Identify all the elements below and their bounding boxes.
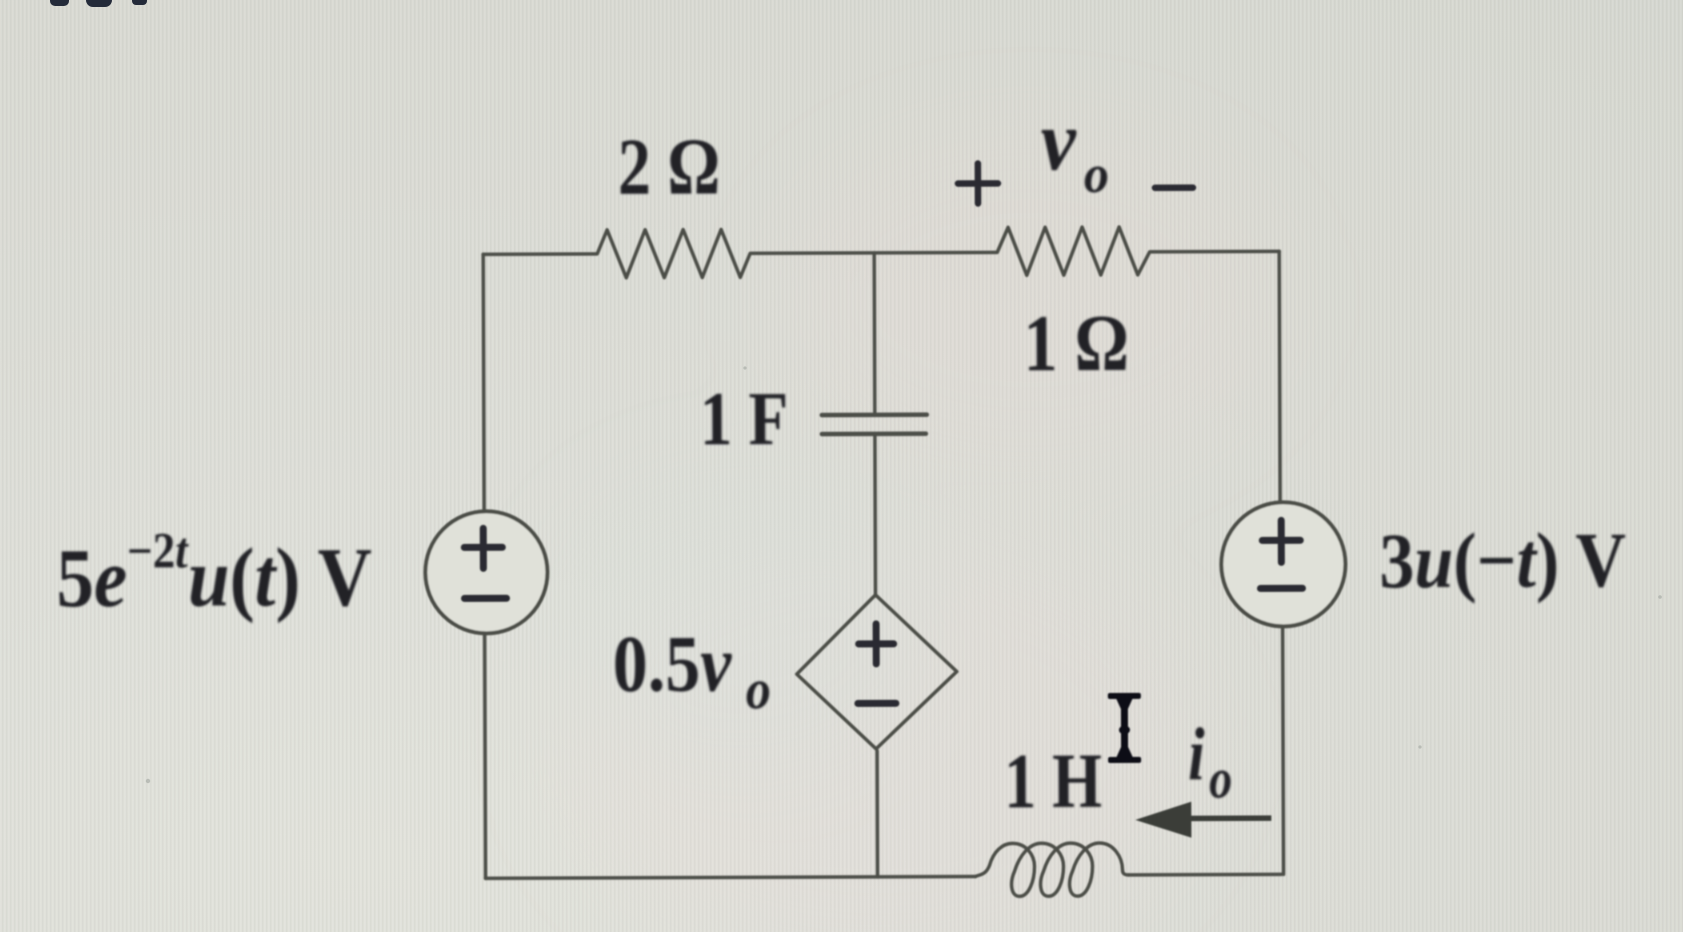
svg-text:v: v <box>1041 93 1078 188</box>
svg-text:0.5v: 0.5v <box>613 620 733 709</box>
svg-text:3u(−t) V: 3u(−t) V <box>1379 517 1626 604</box>
svg-text:1 H: 1 H <box>1004 738 1102 825</box>
svg-text:1 F: 1 F <box>700 377 789 461</box>
svg-text:o: o <box>1209 748 1232 811</box>
svg-text:2 Ω: 2 Ω <box>618 121 721 211</box>
svg-text:5e−2tu(t) V: 5e−2tu(t) V <box>56 522 372 625</box>
svg-text:o: o <box>1084 145 1109 204</box>
svg-text:i: i <box>1188 712 1205 796</box>
svg-text:1 Ω: 1 Ω <box>1023 300 1129 389</box>
svg-text:o: o <box>746 657 771 721</box>
